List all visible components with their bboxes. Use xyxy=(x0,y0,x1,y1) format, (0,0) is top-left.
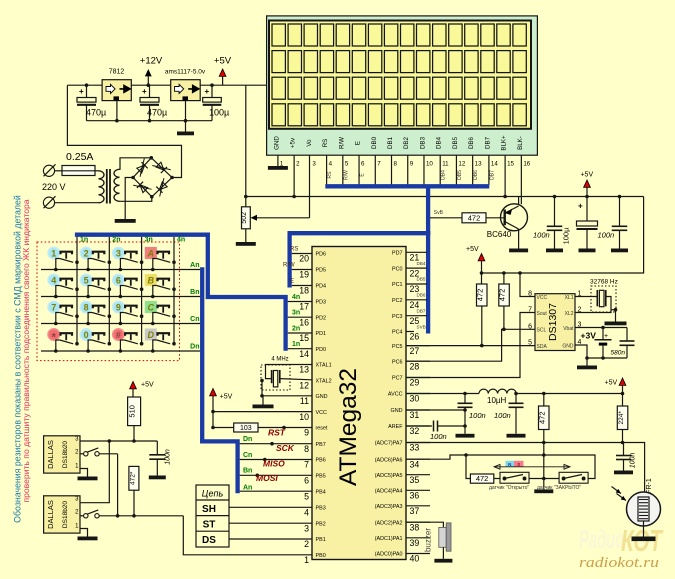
svg-text:DB0: DB0 xyxy=(371,136,378,149)
svg-text:PB6: PB6 xyxy=(316,458,326,464)
svg-text:100n: 100n xyxy=(469,411,486,420)
wire PB6 MISO/Cn xyxy=(240,459,312,461)
svg-text:SCK: SCK xyxy=(276,443,295,453)
svg-text:100n: 100n xyxy=(165,449,172,465)
svg-text:+5V: +5V xyxy=(214,56,232,67)
svg-text:14: 14 xyxy=(491,161,498,168)
svg-text:N: N xyxy=(508,462,511,467)
crystal ZQ1 4MHz xyxy=(261,365,290,390)
svg-text:Радио: Радио xyxy=(579,524,624,554)
svg-text:PD1: PD1 xyxy=(316,331,327,337)
microcontroller DD1 ATMega32 body xyxy=(312,247,406,560)
ATMega32 left pin stubs 20-18 xyxy=(292,253,312,255)
svg-text:An: An xyxy=(190,262,199,269)
key SB1 1 xyxy=(48,247,79,271)
svg-text:100n: 100n xyxy=(533,231,550,240)
svg-text:10µH: 10µH xyxy=(487,396,507,405)
wire rtc ground net xyxy=(587,357,627,359)
bus keypad columns to ATmega (blue) xyxy=(208,236,286,351)
svg-text:PB3: PB3 xyxy=(316,506,326,512)
svg-text:датчик "ЗАКРЫТО": датчик "ЗАКРЫТО" xyxy=(537,485,581,491)
key SB14 0 xyxy=(80,329,111,353)
resistor R 472* onewire pullup xyxy=(129,466,139,490)
bus keypad top (blue) xyxy=(75,233,210,237)
switch SF2 datchik Zakryto xyxy=(559,472,588,483)
capacitor C2 470u xyxy=(149,85,151,97)
svg-text:4 MHz: 4 MHz xyxy=(271,356,288,362)
svg-text:Dn: Dn xyxy=(190,344,199,351)
bridge rectifier VD1-VD4 xyxy=(133,158,172,197)
rtc U5 DS1307 body xyxy=(535,294,575,351)
svg-text:7: 7 xyxy=(51,302,56,312)
svg-text:(ADC3)PA3: (ADC3)PA3 xyxy=(375,504,403,510)
wire DS to PB1 xyxy=(229,538,312,540)
power +5V arrow avcc xyxy=(619,378,626,385)
bus keypad rows staircase (blue) xyxy=(202,439,237,493)
svg-text:C: C xyxy=(148,303,155,313)
svg-text:ams1117-5.0v: ams1117-5.0v xyxy=(165,69,206,76)
battery GB1 +3V xyxy=(575,327,627,329)
svg-text:100n: 100n xyxy=(430,432,447,441)
terminal X1 220V top xyxy=(43,165,54,176)
capacitor C1 470u xyxy=(86,85,88,97)
LCD pin stubs xyxy=(277,155,279,166)
svg-text:PD2: PD2 xyxy=(316,315,327,321)
wire VDD to sensor2 xyxy=(80,441,109,503)
svg-text:470µ: 470µ xyxy=(86,108,106,118)
resistor R 472 light divider xyxy=(543,394,545,407)
svg-text:29: 29 xyxy=(410,378,420,388)
svg-text:5: 5 xyxy=(528,340,532,347)
wire sensor2 pin1 ground xyxy=(80,529,88,537)
key SB3 3 xyxy=(113,247,144,271)
svg-text:100n: 100n xyxy=(598,231,615,240)
wire PB4 An xyxy=(240,490,312,492)
svg-text:DB6: DB6 xyxy=(468,136,475,149)
svg-text:buzzer: buzzer xyxy=(424,528,433,552)
svg-text:DALLAS: DALLAS xyxy=(46,500,55,529)
connector XP1 Цепь/SH/ST/DS xyxy=(196,485,229,547)
key SB8 B xyxy=(145,275,176,299)
svg-text:SCL: SCL xyxy=(537,328,547,334)
svg-text:16: 16 xyxy=(523,161,530,168)
svg-text:220 V: 220 V xyxy=(42,182,66,192)
wire VDD net dallas xyxy=(80,440,157,442)
wire LCD Vo xyxy=(309,155,311,218)
svg-text:PB0: PB0 xyxy=(316,553,326,559)
wire door chain left xyxy=(466,455,470,479)
svg-text:27: 27 xyxy=(410,346,420,356)
svg-text:RST: RST xyxy=(268,428,286,438)
svg-text:1: 1 xyxy=(51,248,56,258)
svg-text:472: 472 xyxy=(476,474,489,483)
transistor VT1 BC640 xyxy=(501,204,528,231)
svg-text:20: 20 xyxy=(299,254,309,264)
svg-text:Cn: Cn xyxy=(243,452,252,459)
capacitor 100u rail xyxy=(586,197,588,222)
svg-text:Bn: Bn xyxy=(190,289,199,296)
svg-text:2: 2 xyxy=(296,161,300,168)
svg-text:DB4: DB4 xyxy=(436,136,443,149)
svg-text:SH: SH xyxy=(202,504,216,515)
svg-text:PB7: PB7 xyxy=(316,442,326,448)
svg-text:16: 16 xyxy=(299,317,309,327)
svg-text:FR-1: FR-1 xyxy=(646,478,653,494)
svg-text:30: 30 xyxy=(410,394,420,404)
svg-text:Bn: Bn xyxy=(243,468,252,475)
wire PB5 MOSI/Bn xyxy=(240,474,312,476)
svg-text:DB4: DB4 xyxy=(417,261,426,266)
svg-text:MISO: MISO xyxy=(263,458,285,468)
power +5V arrow dallas xyxy=(130,382,137,389)
svg-text:31: 31 xyxy=(410,410,420,420)
svg-text:Sout: Sout xyxy=(537,311,548,317)
wire regulator bottom rail xyxy=(87,120,213,122)
svg-text:VCC: VCC xyxy=(316,410,327,416)
ground ATmega GND/crystal xyxy=(253,405,274,409)
svg-text:RS: RS xyxy=(290,247,298,253)
svg-text:PC6: PC6 xyxy=(392,359,403,365)
svg-text:2n: 2n xyxy=(292,326,300,333)
svg-text:PB4: PB4 xyxy=(316,489,326,495)
svg-text:4: 4 xyxy=(51,275,56,285)
svg-text:17: 17 xyxy=(299,302,309,312)
svg-text:(ADC7)PA7: (ADC7)PA7 xyxy=(375,441,403,447)
sensor U4 DS18b20 bottom xyxy=(44,496,80,533)
svg-text:3n: 3n xyxy=(292,310,300,317)
svg-text:+5V: +5V xyxy=(466,246,479,253)
ground power supply xyxy=(177,132,194,136)
svg-text:7: 7 xyxy=(528,307,532,314)
svg-text:40: 40 xyxy=(410,554,420,564)
svg-text:+: + xyxy=(142,87,147,96)
svg-text:224*: 224* xyxy=(618,411,625,425)
svg-text:+: + xyxy=(205,87,210,96)
wire crystal ground rtc xyxy=(611,309,616,311)
svg-text:4: 4 xyxy=(304,508,309,518)
svg-text:BLK+: BLK+ xyxy=(501,135,508,151)
svg-text:3: 3 xyxy=(304,523,309,533)
svg-text:radiokot.ru: radiokot.ru xyxy=(579,555,659,571)
svg-text:DB7: DB7 xyxy=(417,308,426,313)
svg-text:DS18b20: DS18b20 xyxy=(62,441,69,468)
svg-text:100n: 100n xyxy=(630,453,637,469)
svg-text:MOSI: MOSI xyxy=(256,473,278,483)
switch sensor1 parasite xyxy=(80,453,84,455)
svg-text:3: 3 xyxy=(312,161,316,168)
wire PB0 to 1-wire data xyxy=(183,516,312,555)
svg-text:E: E xyxy=(290,279,294,285)
wire SCL PC6 xyxy=(406,329,535,361)
svg-text:SvB: SvB xyxy=(434,210,444,216)
svg-text:6: 6 xyxy=(304,476,309,486)
svg-text:1n: 1n xyxy=(292,341,300,348)
svg-text:510: 510 xyxy=(128,405,137,418)
key SB15 # xyxy=(113,329,144,353)
svg-text:R/W: R/W xyxy=(343,170,349,180)
wire PA2 to buzzer xyxy=(406,522,443,527)
svg-text:DB5: DB5 xyxy=(457,170,463,180)
wire secondary top to bridge xyxy=(120,158,152,170)
power +5V arrow top right xyxy=(584,180,591,187)
svg-text:A: A xyxy=(147,249,155,259)
svg-text:0.25A: 0.25A xyxy=(66,151,93,163)
svg-text:DS1307: DS1307 xyxy=(547,303,559,341)
keypad row lines An Bn Cn Dn xyxy=(41,269,200,271)
svg-text:18: 18 xyxy=(299,286,309,296)
resistor R 472 scl pullup xyxy=(503,273,505,284)
svg-text:PB2: PB2 xyxy=(316,521,326,527)
svg-text:RS: RS xyxy=(327,171,333,179)
svg-text:D: D xyxy=(148,330,155,340)
svg-text:DB2: DB2 xyxy=(403,136,410,149)
terminal X2 220V bottom xyxy=(43,197,54,208)
ground bridge xyxy=(115,219,136,223)
key SB5 4 xyxy=(48,274,79,298)
key SB6 5 xyxy=(80,274,111,298)
capacitor 100n rail A xyxy=(554,197,556,227)
right pin stubs xyxy=(406,251,427,253)
ground FR-1 xyxy=(632,537,656,542)
svg-text:472: 472 xyxy=(475,289,484,302)
wire rectifier positive feed xyxy=(67,85,181,177)
svg-text:3n: 3n xyxy=(145,237,153,244)
svg-text:8: 8 xyxy=(528,291,532,298)
sensor U3 DS18b20 top xyxy=(44,436,80,473)
svg-text:PD6: PD6 xyxy=(316,252,327,258)
resistor R 224* xyxy=(622,394,624,407)
svg-text:470µ: 470µ xyxy=(147,108,167,118)
svg-text:PC0: PC0 xyxy=(392,266,403,272)
svg-text:13: 13 xyxy=(299,365,309,375)
svg-text:9: 9 xyxy=(304,428,309,438)
trimmer R 502 xyxy=(244,195,248,199)
svg-text:PB5: PB5 xyxy=(316,474,326,480)
svg-text:XTAL2: XTAL2 xyxy=(316,378,332,384)
svg-text:9: 9 xyxy=(116,302,121,312)
svg-text:33: 33 xyxy=(410,443,420,453)
svg-text:36: 36 xyxy=(410,491,420,501)
wire VCC rtc xyxy=(520,273,535,297)
wire XTAL1 xyxy=(266,365,313,379)
svg-text:PD5: PD5 xyxy=(316,268,327,274)
svg-text:2: 2 xyxy=(304,539,309,549)
bus SVB vertical (blue) xyxy=(426,186,430,333)
svg-text:ATMega32: ATMega32 xyxy=(335,368,362,486)
svg-text:BC640: BC640 xyxy=(487,230,512,239)
svg-text:8: 8 xyxy=(394,161,398,168)
svg-text:5: 5 xyxy=(84,275,89,285)
svg-text:4n: 4n xyxy=(177,237,185,244)
wire SDA PC5 xyxy=(406,345,535,347)
svg-text:R/W: R/W xyxy=(338,137,345,149)
bus to ATmega RS/E (blue) xyxy=(288,231,431,235)
svg-text:(ADC4)PA4: (ADC4)PA4 xyxy=(375,489,403,495)
svg-text:11: 11 xyxy=(442,161,449,168)
wire Sout PC7 xyxy=(406,313,535,378)
svg-text:19: 19 xyxy=(299,270,309,280)
svg-text:reset: reset xyxy=(316,426,328,432)
wire +5V horizontal rail xyxy=(246,196,644,198)
svg-text:32: 32 xyxy=(410,426,420,436)
svg-text:38: 38 xyxy=(410,522,420,532)
capacitor 580n backup xyxy=(626,328,628,342)
svg-text:502: 502 xyxy=(241,212,248,224)
LCD module HG1 panel xyxy=(267,16,538,155)
wire AVCC net xyxy=(406,393,479,395)
capacitor 100n avcc A xyxy=(464,394,466,404)
power +5V arrow rtc xyxy=(478,254,485,261)
magnet travel arrow xyxy=(494,466,570,468)
svg-text:DB3: DB3 xyxy=(419,136,426,149)
svg-text:DB6: DB6 xyxy=(473,170,479,180)
svg-text:+5V: +5V xyxy=(580,172,593,179)
svg-text:6: 6 xyxy=(528,323,532,330)
svg-text:13: 13 xyxy=(475,161,482,168)
svg-text:10: 10 xyxy=(426,161,433,168)
svg-text:+5V: +5V xyxy=(141,382,154,389)
key SB4 A xyxy=(145,248,176,272)
switch SF1 datchik Otkryto xyxy=(494,478,500,480)
svg-text:DB5: DB5 xyxy=(452,136,459,149)
svg-text:+5v: +5v xyxy=(290,137,297,148)
regulator U1 7812 xyxy=(102,80,131,101)
svg-text:5: 5 xyxy=(345,161,349,168)
svg-text:GND: GND xyxy=(316,394,328,400)
svg-text:+: + xyxy=(604,333,608,340)
svg-text:3: 3 xyxy=(116,248,121,258)
svg-text:472*: 472* xyxy=(129,471,136,485)
wire PA7 light sensor net xyxy=(406,443,645,493)
svg-text:0: 0 xyxy=(84,330,89,340)
wire door chain middle xyxy=(529,478,559,480)
inductor L1 10uH xyxy=(479,389,488,393)
svg-text:11: 11 xyxy=(300,396,309,406)
svg-text:4: 4 xyxy=(329,161,333,168)
svg-text:2n: 2n xyxy=(112,237,120,244)
svg-text:PC2: PC2 xyxy=(392,298,403,304)
svg-text:37: 37 xyxy=(410,506,420,516)
svg-text:39: 39 xyxy=(410,538,420,548)
svg-text:472: 472 xyxy=(498,289,507,302)
svg-text:+: + xyxy=(79,87,84,96)
svg-text:AREF: AREF xyxy=(388,424,403,430)
svg-text:DB7: DB7 xyxy=(484,136,491,149)
svg-text:+5V: +5V xyxy=(605,380,618,387)
svg-text:ST: ST xyxy=(203,519,216,530)
svg-text:S: S xyxy=(517,462,520,467)
svg-text:580n: 580n xyxy=(611,350,626,357)
svg-text:E: E xyxy=(355,141,362,145)
svg-text:GND: GND xyxy=(562,343,574,349)
svg-text:SVB: SVB xyxy=(417,324,426,329)
key SB12 C xyxy=(145,302,176,326)
svg-text:PC7: PC7 xyxy=(392,376,403,382)
transformer T1 xyxy=(99,171,105,179)
svg-text:26: 26 xyxy=(410,332,420,342)
svg-text:7: 7 xyxy=(377,161,381,168)
wire crystal ground xyxy=(261,381,263,396)
svg-text:An: An xyxy=(243,485,252,492)
svg-text:Vo: Vo xyxy=(306,139,313,147)
ground BC640 xyxy=(509,249,528,253)
wire +5V top rail xyxy=(246,84,293,86)
svg-text:+: + xyxy=(578,202,583,211)
wire ST to PB2 xyxy=(229,522,312,524)
LCD character grid xyxy=(272,24,285,46)
svg-text:PC4: PC4 xyxy=(392,330,403,336)
svg-text:AVCC: AVCC xyxy=(388,392,403,398)
ground rtc xyxy=(577,366,597,370)
svg-text:BLK-: BLK- xyxy=(517,136,524,150)
ground door sensors xyxy=(543,479,545,490)
wire +5V rail right drop xyxy=(482,197,644,274)
capacitor C3 100u xyxy=(211,85,213,97)
svg-text:XL1: XL1 xyxy=(565,295,574,301)
capacitor 100n rail B xyxy=(619,197,621,227)
wire VCC pin10 xyxy=(213,411,312,413)
svg-text:RS: RS xyxy=(322,139,329,148)
svg-text:DB7: DB7 xyxy=(489,170,495,180)
keypad column lines xyxy=(76,237,78,344)
key SB16 D xyxy=(145,329,176,353)
svg-text:Vbat: Vbat xyxy=(563,326,574,332)
svg-text:датчик "Открыто": датчик "Открыто" xyxy=(489,485,529,491)
wire GND pin11 xyxy=(263,396,312,405)
svg-text:DALLAS: DALLAS xyxy=(46,440,55,469)
svg-text:R/W: R/W xyxy=(283,263,295,269)
wire PA6 door sensor net xyxy=(406,455,595,479)
svg-text:(ADC5)PA5: (ADC5)PA5 xyxy=(375,473,403,479)
svg-text:XTAL1: XTAL1 xyxy=(316,363,332,369)
capacitor 100n light filter xyxy=(623,443,625,456)
svg-text:PD3: PD3 xyxy=(316,300,327,306)
svg-text:DS18b20: DS18b20 xyxy=(62,501,69,528)
svg-text:DB1: DB1 xyxy=(387,136,394,149)
wire GND pin31 xyxy=(406,409,465,411)
ATMega32 left pin stubs 17-14 keypad columns xyxy=(288,301,312,303)
wire divider to PA6 xyxy=(543,443,545,479)
svg-text:(ADC0)PA0: (ADC0)PA0 xyxy=(375,552,403,558)
svg-text:8: 8 xyxy=(304,444,309,454)
svg-text:PC5: PC5 xyxy=(392,344,403,350)
svg-text:6: 6 xyxy=(116,275,121,285)
wire SVB to base resistor xyxy=(430,217,462,219)
svg-text:10: 10 xyxy=(299,412,309,422)
svg-text:1n: 1n xyxy=(80,237,88,244)
svg-text:PD7: PD7 xyxy=(392,251,403,257)
svg-text:#: # xyxy=(116,330,121,340)
resistor R 472 sda pullup xyxy=(481,273,483,284)
svg-text:9: 9 xyxy=(410,161,414,168)
resistor R 472 door xyxy=(470,474,493,483)
svg-text:12: 12 xyxy=(458,161,465,168)
svg-text:PC1: PC1 xyxy=(392,282,403,288)
svg-text:GND: GND xyxy=(273,136,280,150)
wire PB7 SCK/Dn xyxy=(240,443,312,445)
node RST xyxy=(282,426,286,430)
light arrows FR-1 xyxy=(612,487,622,494)
svg-text:15: 15 xyxy=(507,161,514,168)
svg-text:2: 2 xyxy=(84,248,89,258)
key SB2 2 xyxy=(80,247,111,271)
svg-text:472: 472 xyxy=(537,411,546,424)
wire 1-wire data bus xyxy=(99,515,183,517)
svg-text:4n: 4n xyxy=(292,294,300,301)
svg-text:+5V: +5V xyxy=(220,394,233,401)
wire Vo wiper xyxy=(253,217,310,219)
svg-text:DB4: DB4 xyxy=(441,170,447,180)
